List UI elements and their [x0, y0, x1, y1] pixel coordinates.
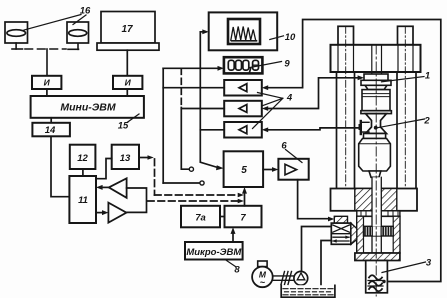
tank return line — [321, 241, 331, 291]
label 2 — [378, 116, 431, 128]
label 3 — [382, 258, 432, 273]
amplifier 4b — [224, 101, 262, 117]
label 1 — [382, 71, 431, 82]
piston — [364, 226, 394, 236]
wire triangle bus — [126, 188, 146, 212]
valve to cylinder cone — [351, 223, 357, 244]
motor M — [252, 261, 273, 288]
transducer block 3 — [366, 261, 388, 293]
specimen — [366, 114, 387, 134]
wire I2 to mini — [126, 89, 128, 96]
cylinder top flange — [357, 211, 400, 217]
wire bus V2 dashed upper — [180, 68, 182, 107]
block I1 — [32, 76, 61, 89]
wire 7 to 5 — [242, 187, 247, 206]
block 13 — [112, 145, 139, 169]
svg-text:3: 3 — [426, 258, 432, 269]
wire 6 to servo valve — [298, 180, 335, 222]
amplifier 4c — [224, 122, 262, 138]
svg-text:9: 9 — [284, 59, 290, 70]
wire bus V1 — [162, 68, 164, 183]
wire to switch contact B — [163, 182, 200, 184]
op-amp DAC upper triangle — [96, 178, 127, 198]
amplifier 6 — [278, 159, 308, 180]
wire monitor to I2 — [126, 50, 128, 76]
machine columns — [337, 72, 417, 189]
node junction loop to 3 — [382, 280, 385, 283]
block 11 — [69, 176, 96, 223]
svg-text:13: 13 — [120, 153, 131, 164]
wire 13 to dashed link — [139, 155, 244, 197]
lower crosshead — [331, 189, 418, 211]
wire disk bus — [12, 43, 79, 76]
dashed link to 5-7 node — [148, 199, 245, 204]
wire bus V2 lower — [181, 108, 189, 170]
lower grip — [359, 134, 391, 178]
block Mini-EVM U15 — [31, 96, 144, 118]
machine column stub right — [398, 26, 414, 45]
wire 12 to 11 — [82, 169, 84, 176]
machine column stub left — [338, 26, 354, 45]
svg-text:14: 14 — [45, 125, 56, 136]
switch blade into 5 — [201, 162, 224, 170]
op-amp ADC lower triangle — [96, 203, 126, 223]
wire amp2 input from load cell — [262, 75, 364, 111]
load cell 1 — [361, 74, 392, 114]
amplifier 4a — [224, 80, 262, 96]
hydraulic pump line to valve — [302, 227, 332, 272]
label 4 — [253, 93, 293, 129]
label 6 — [281, 141, 302, 163]
cylinder bottom flange — [355, 253, 400, 261]
svg-text:2: 2 — [423, 116, 430, 127]
svg-text:И: И — [44, 78, 51, 88]
monitor 17 — [97, 12, 159, 51]
node on specimen — [374, 126, 378, 130]
svg-text:12: 12 — [77, 153, 88, 164]
motor shaft coupling — [273, 272, 294, 285]
wire micro to 7 — [231, 227, 236, 242]
svg-text:15: 15 — [118, 121, 129, 132]
wire 13 to 11 — [96, 159, 112, 179]
svg-text:7: 7 — [240, 213, 246, 224]
label 15 — [118, 114, 139, 132]
machine crossbeam — [331, 45, 421, 74]
svg-text:1: 1 — [425, 71, 430, 82]
column center lines — [346, 26, 406, 188]
svg-text:Мини-ЭВМ: Мини-ЭВМ — [60, 102, 116, 114]
wire into oscilloscope — [202, 29, 208, 34]
svg-text:5: 5 — [241, 165, 247, 176]
svg-text:11: 11 — [78, 195, 88, 206]
svg-text:8: 8 — [234, 265, 240, 276]
wire to display 9 — [163, 66, 224, 71]
extensometer 2 — [359, 121, 370, 134]
label 10 — [270, 32, 296, 43]
svg-text:7а: 7а — [195, 213, 206, 224]
pump — [294, 271, 308, 285]
machine center axis — [375, 45, 377, 296]
piston rod — [372, 177, 381, 253]
wire I1 to mini — [46, 89, 48, 96]
label 9 — [250, 59, 290, 70]
block 5 — [224, 151, 264, 187]
svg-text:17: 17 — [121, 24, 133, 35]
wire amp3 input from extensometer — [262, 127, 361, 132]
display 9 — [224, 57, 263, 73]
block Micro-EVM U8 — [185, 242, 243, 260]
wire mini to 14 — [50, 118, 52, 123]
wire amp1 input loop (sensor 3) — [262, 20, 441, 282]
wire 7a to 7 — [220, 216, 225, 218]
block 7 — [225, 206, 262, 228]
svg-text:10: 10 — [285, 32, 296, 43]
disk drive 16b — [67, 22, 89, 43]
wire amp1 output — [163, 87, 224, 89]
block I2 — [113, 76, 142, 89]
hydraulic cylinder — [357, 216, 400, 253]
disk drive 16a — [5, 22, 28, 43]
wire amp3 output — [200, 129, 224, 131]
svg-text:4: 4 — [286, 93, 293, 104]
servo valve — [331, 216, 351, 244]
wire 14 to 11 — [51, 136, 69, 196]
wire amp2 output — [181, 108, 224, 110]
oscilloscope 10 — [209, 12, 278, 50]
svg-text:Микро-ЭВМ: Микро-ЭВМ — [186, 247, 242, 258]
oil tank — [281, 285, 335, 297]
svg-text:~: ~ — [260, 278, 266, 288]
wire bus V3 — [200, 32, 206, 162]
wire 5 to 6 — [263, 167, 278, 172]
switch contact A — [189, 167, 193, 171]
block 7a — [181, 206, 220, 228]
block 14 — [32, 123, 70, 137]
label 16 — [24, 6, 91, 31]
switch contact B — [200, 181, 204, 185]
svg-text:И: И — [125, 78, 132, 88]
block 12 — [70, 145, 96, 169]
label 8 — [225, 260, 240, 276]
